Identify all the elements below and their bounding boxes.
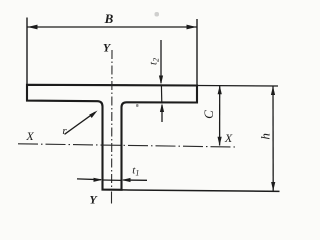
C top arrowhead (up) [218,85,222,94]
svg-text:C: C [201,110,216,119]
t1 dimension right shaft with left arrow [123,179,147,181]
Y axis tail below web [111,192,113,204]
C bottom arrowhead (down) [218,137,222,146]
svg-text:r: r [62,125,67,137]
r leader arrowhead [89,111,97,119]
svg-text:X: X [224,131,233,145]
h bottom extension line (from web bottom) [122,190,280,192]
scan speck below flange [136,104,139,107]
scan speck top [155,12,160,17]
h top extension line (from flange top) [198,85,278,88]
svg-text:h: h [258,133,273,140]
B dimension line [27,26,197,28]
Y axis (vertical centerline, dash-dot) [111,50,113,189]
t1 dimension left shaft with right arrow [77,178,101,181]
X axis (horizontal centerline, dash-dot) [18,144,235,147]
B dimension left extension line [26,18,28,85]
r leader line [65,112,96,134]
T-section outline [27,85,197,190]
B dimension left arrowhead [28,25,38,30]
C dimension line [219,86,221,146]
h top arrowhead (up) [271,86,275,95]
t2 dimension upper shaft with down arrow [160,40,162,83]
h dimension line [272,86,274,191]
svg-text:B: B [104,11,114,26]
h bottom arrowhead (down) [271,182,275,191]
t2 connecting segment through flange [160,85,162,104]
B dimension right arrowhead [187,25,197,30]
B dimension right extension line [196,19,198,86]
t1 connecting segment through web [103,179,122,181]
t2 dimension lower shaft with up arrow [161,105,163,122]
svg-text:X: X [25,129,34,143]
